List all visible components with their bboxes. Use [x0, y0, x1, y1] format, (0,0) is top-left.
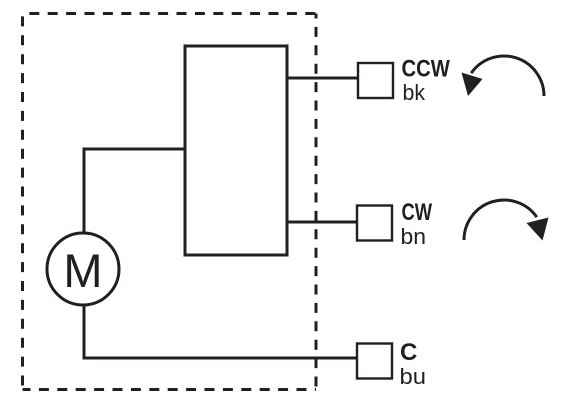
svg-text:CW: CW — [402, 199, 433, 226]
CCW rotation arrow — [462, 56, 545, 96]
terminal C — [357, 344, 392, 379]
svg-text:C: C — [400, 339, 417, 366]
dashed enclosure border top edge — [23, 12, 317, 15]
svg-text:CCW: CCW — [402, 55, 451, 82]
terminal CCW — [358, 63, 393, 98]
motor M — [47, 233, 119, 305]
CW rotation arrow — [464, 200, 549, 241]
svg-text:M: M — [63, 244, 102, 297]
wire motor-bottom to terminal C — [84, 305, 357, 358]
svg-text:bu: bu — [400, 364, 427, 389]
wire block to terminal CW — [287, 221, 357, 224]
dashed enclosure border bottom edge — [23, 388, 317, 391]
dashed enclosure border left edge — [21, 14, 24, 390]
terminal CW — [357, 206, 392, 241]
svg-text:bk: bk — [403, 80, 426, 105]
switch block U1 — [185, 46, 287, 255]
dashed enclosure border right edge — [315, 14, 318, 390]
wire motor-top to block — [84, 149, 185, 233]
wire block to terminal CCW — [287, 77, 358, 80]
svg-text:bn: bn — [401, 224, 427, 249]
